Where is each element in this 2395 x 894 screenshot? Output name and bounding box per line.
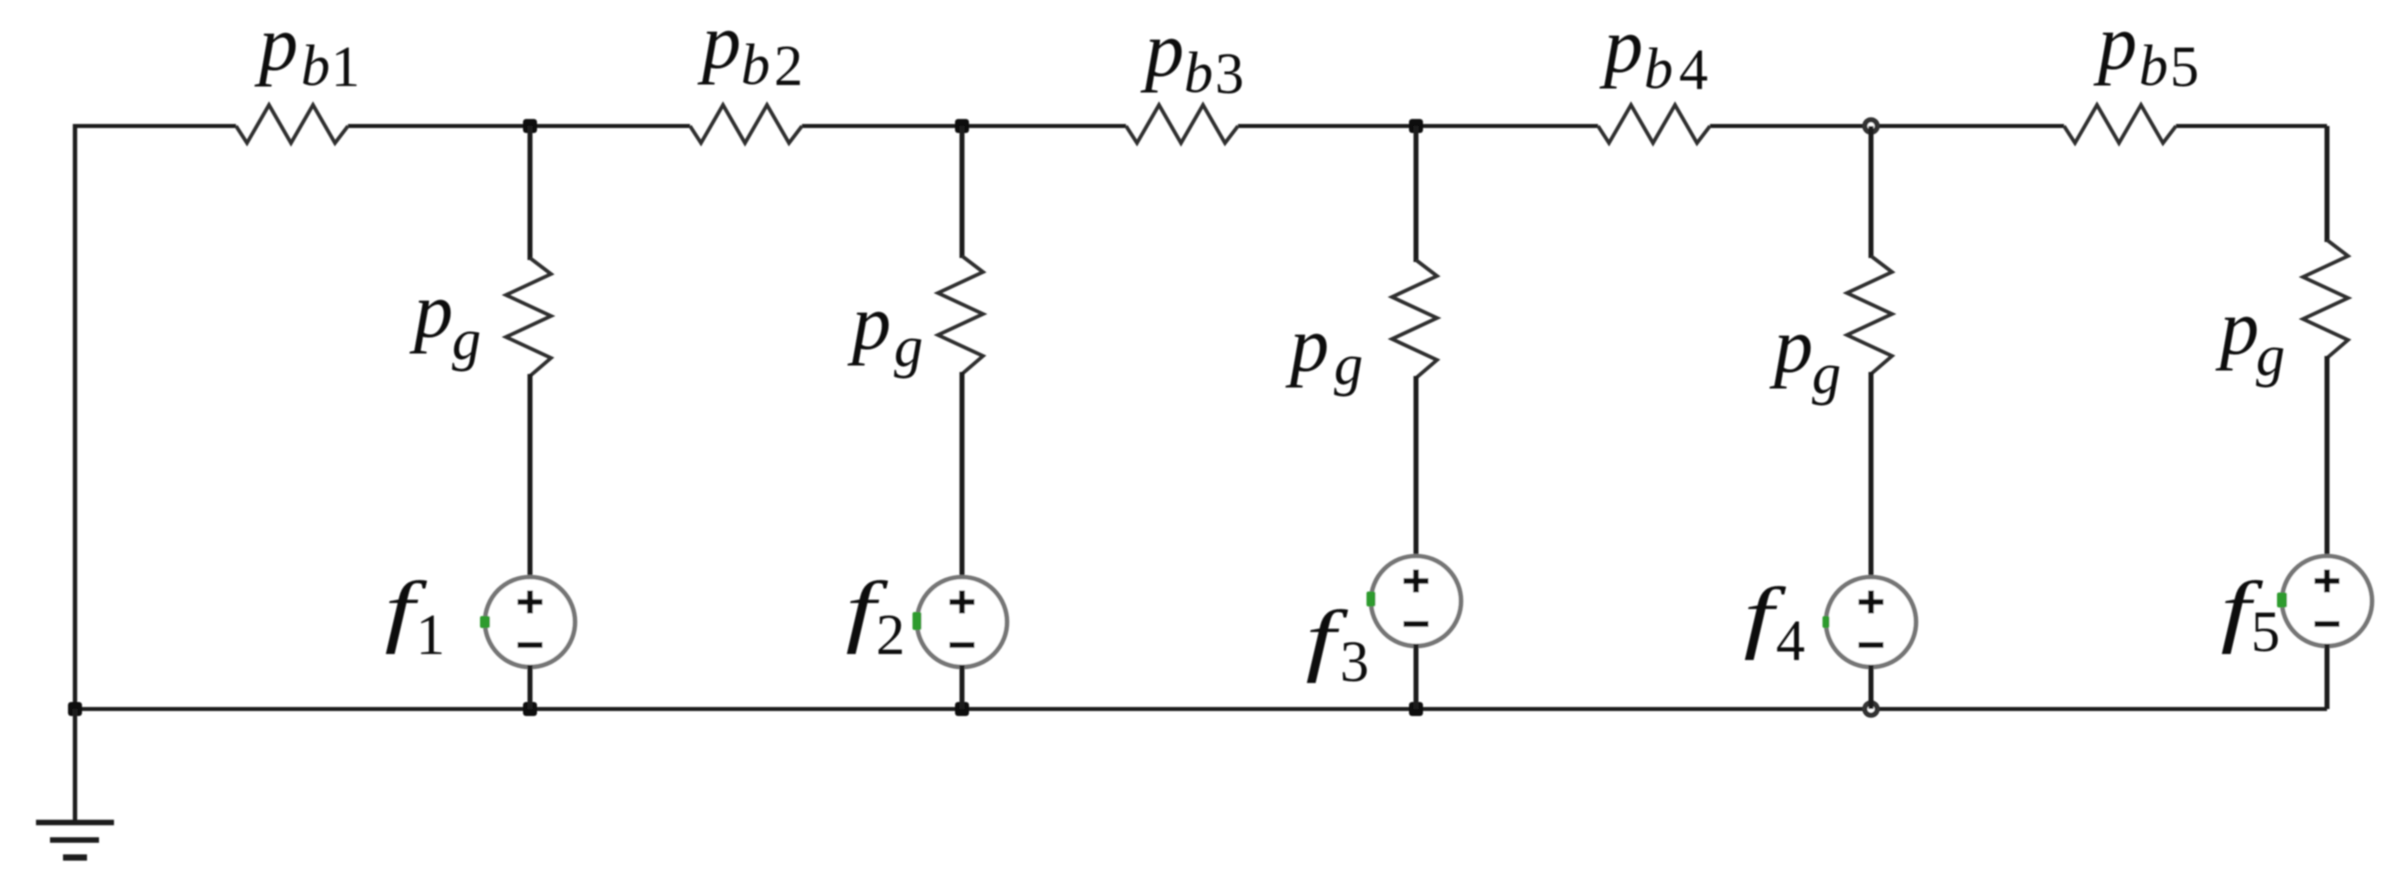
resistor Pb4: [1598, 105, 1710, 143]
wire branch 4 lower: [1869, 665, 1874, 709]
wire branch 2 lower: [960, 665, 965, 709]
wire branch 3 upper: [1414, 126, 1419, 262]
wire ground lead: [73, 709, 77, 821]
label p_g branch 4: [1769, 302, 1841, 406]
label f_3: [1306, 594, 1369, 694]
wire top segment 5: [1710, 124, 2064, 128]
svg-text:b: b: [301, 33, 330, 98]
label p_g branch 3: [1285, 301, 1363, 397]
svg-text:b: b: [2139, 33, 2168, 98]
resistor Pg branch 1: [506, 258, 551, 376]
node bottom junction 1: [68, 702, 82, 716]
wire top segment 4: [1238, 124, 1598, 128]
resistor Pb1: [236, 105, 348, 143]
node bottom open terminal 4: [1865, 703, 1877, 715]
wire branch 3 middle: [1414, 376, 1419, 558]
wire top segment 6: [2176, 124, 2327, 128]
resistor Pb5: [2064, 105, 2176, 143]
resistor Pg branch 2: [938, 256, 983, 374]
label f_4: [1744, 571, 1805, 673]
wire branch 5 middle: [2325, 356, 2330, 558]
svg-text:p: p: [1285, 301, 1329, 388]
svg-text:b: b: [741, 32, 770, 97]
wire branch 5 upper: [2325, 126, 2330, 242]
node bottom junction 2: [523, 702, 537, 716]
svg-text:b: b: [1184, 40, 1213, 105]
wire branch 2 upper: [960, 126, 965, 258]
svg-text:p: p: [409, 267, 453, 354]
resistor Pg branch 3: [1392, 260, 1437, 378]
svg-text:2: 2: [876, 602, 905, 667]
label f_2: [846, 565, 905, 667]
label f_5: [2221, 565, 2280, 664]
wire branch 5 lower: [2325, 644, 2330, 709]
svg-text:g: g: [894, 314, 923, 379]
label p_b3: [1140, 6, 1244, 106]
wire branch 4 middle: [1869, 372, 1874, 579]
svg-text:p: p: [254, 0, 298, 87]
voltage source F5: [2277, 556, 2372, 646]
wire top segment 1: [75, 124, 236, 128]
node bottom junction 3: [955, 702, 969, 716]
svg-text:p: p: [1599, 2, 1643, 89]
wire branch 2 middle: [960, 372, 965, 579]
node top open terminal 4: [1865, 120, 1877, 132]
svg-text:2: 2: [774, 33, 803, 98]
svg-text:4: 4: [1679, 37, 1708, 102]
voltage source F3: [1367, 556, 1462, 646]
svg-text:g: g: [1812, 341, 1841, 406]
svg-text:p: p: [2215, 284, 2259, 371]
voltage source F4: [1823, 577, 1917, 667]
label p_b1: [254, 0, 360, 99]
node top junction 2: [955, 119, 969, 133]
wire branch 4 upper: [1869, 126, 1874, 258]
node top junction 3: [1409, 119, 1423, 133]
label p_b2: [697, 0, 803, 98]
svg-text:g: g: [452, 307, 481, 372]
label p_g branch 5: [2215, 284, 2285, 388]
svg-text:p: p: [847, 279, 891, 366]
wire branch 3 lower: [1414, 644, 1419, 709]
label f_1: [385, 565, 445, 667]
label p_g branch 1: [409, 267, 481, 372]
wire top segment 2: [348, 124, 690, 128]
svg-text:b: b: [1644, 36, 1673, 101]
svg-text:3: 3: [1340, 629, 1369, 694]
resistor Pg branch 5: [2303, 240, 2348, 358]
svg-text:p: p: [1769, 302, 1813, 389]
svg-text:1: 1: [416, 602, 445, 667]
resistor Pg branch 4: [1847, 256, 1892, 374]
wire top segment 3: [802, 124, 1126, 128]
label p_g branch 2: [847, 279, 923, 379]
node top junction 1: [523, 119, 537, 133]
ground: [36, 823, 114, 858]
wire branch 1 upper: [528, 126, 533, 260]
wire left side: [73, 124, 77, 709]
svg-text:p: p: [697, 0, 741, 85]
svg-text:p: p: [1140, 6, 1184, 93]
svg-text:4: 4: [1776, 608, 1805, 673]
wire branch 1 lower: [528, 665, 533, 709]
svg-text:1: 1: [331, 34, 360, 99]
svg-text:5: 5: [2170, 34, 2199, 99]
wire bottom rail: [75, 707, 2327, 711]
wire branch 1 middle: [528, 374, 533, 579]
svg-text:g: g: [1334, 332, 1363, 397]
label p_b4: [1599, 2, 1708, 102]
voltage source F2: [913, 577, 1008, 667]
node bottom junction 4: [1409, 702, 1423, 716]
svg-text:g: g: [2256, 323, 2285, 388]
svg-text:3: 3: [1215, 41, 1244, 106]
resistor Pb2: [690, 105, 802, 143]
svg-text:p: p: [2093, 0, 2137, 86]
label p_b5: [2093, 0, 2199, 99]
resistor Pb3: [1126, 105, 1238, 143]
voltage source F1: [480, 577, 575, 667]
svg-text:5: 5: [2251, 599, 2280, 664]
